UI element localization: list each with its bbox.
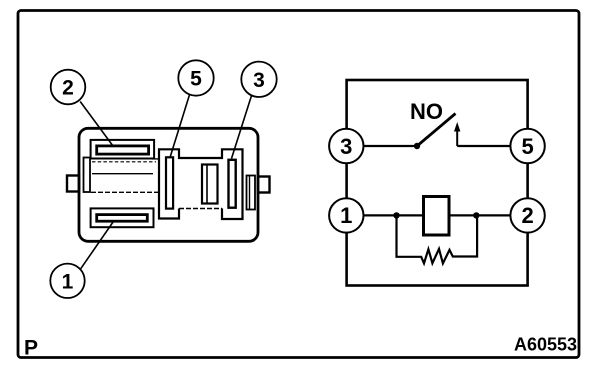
callout circle 1 xyxy=(50,264,84,298)
junction node left xyxy=(393,212,399,218)
center slot inner line xyxy=(206,165,208,204)
terminal 2 slot outer xyxy=(91,140,155,159)
junction node right xyxy=(473,212,479,218)
callout circle 3 xyxy=(241,62,276,97)
switch pivot contact xyxy=(414,143,420,149)
relay connector body xyxy=(79,128,258,241)
leader line 1 xyxy=(80,222,113,270)
terminal 1 slot outer xyxy=(91,208,154,227)
svg-text:2: 2 xyxy=(521,203,533,228)
terminal 2 slot blade xyxy=(97,146,149,154)
svg-text:3: 3 xyxy=(253,69,265,92)
terminal 1 slot blade xyxy=(97,215,148,222)
svg-text:2: 2 xyxy=(62,77,74,100)
terminal circle 1 xyxy=(329,198,363,232)
left mounting tab xyxy=(67,176,79,192)
callout circle 5 xyxy=(178,60,213,95)
svg-text:5: 5 xyxy=(190,68,202,91)
terminal circle 2 xyxy=(510,198,544,232)
terminal circle 3 xyxy=(329,129,363,163)
svg-text:1: 1 xyxy=(340,203,352,228)
leader line 2 xyxy=(80,102,113,147)
body seam line xyxy=(91,191,160,193)
svg-text:1: 1 xyxy=(62,270,74,293)
wire 3 to switch xyxy=(362,145,417,147)
leader line 5 xyxy=(170,95,190,158)
right mounting tab xyxy=(258,177,270,193)
switch arrow stub xyxy=(456,129,458,146)
body seam line xyxy=(92,173,153,175)
leader line 3 xyxy=(232,96,252,159)
wire switch to 5 xyxy=(457,145,512,147)
wire 1 to 2 bottom row xyxy=(362,214,512,216)
resistor branch xyxy=(397,215,478,263)
left inner rail xyxy=(84,158,91,193)
svg-text:NO: NO xyxy=(410,99,443,124)
center terminal block outline xyxy=(159,149,243,219)
svg-text:5: 5 xyxy=(521,134,533,159)
switch blade xyxy=(417,114,456,147)
relay case outline xyxy=(347,80,528,286)
right inner rail line xyxy=(249,176,251,210)
switch arrowhead xyxy=(454,122,460,132)
terminal circle 5 xyxy=(510,129,544,163)
center block bottom seam xyxy=(179,208,222,210)
callout circle 2 xyxy=(51,70,86,105)
terminal 5 slot xyxy=(166,157,173,208)
svg-text:P: P xyxy=(24,337,38,360)
right inner rail xyxy=(247,176,256,210)
relay coil xyxy=(424,197,450,236)
center slot xyxy=(202,165,218,204)
body seam line xyxy=(92,161,156,163)
svg-text:A60553: A60553 xyxy=(514,335,577,355)
terminal 3 slot xyxy=(229,160,236,208)
svg-text:3: 3 xyxy=(340,134,352,159)
body seam line xyxy=(152,158,160,160)
